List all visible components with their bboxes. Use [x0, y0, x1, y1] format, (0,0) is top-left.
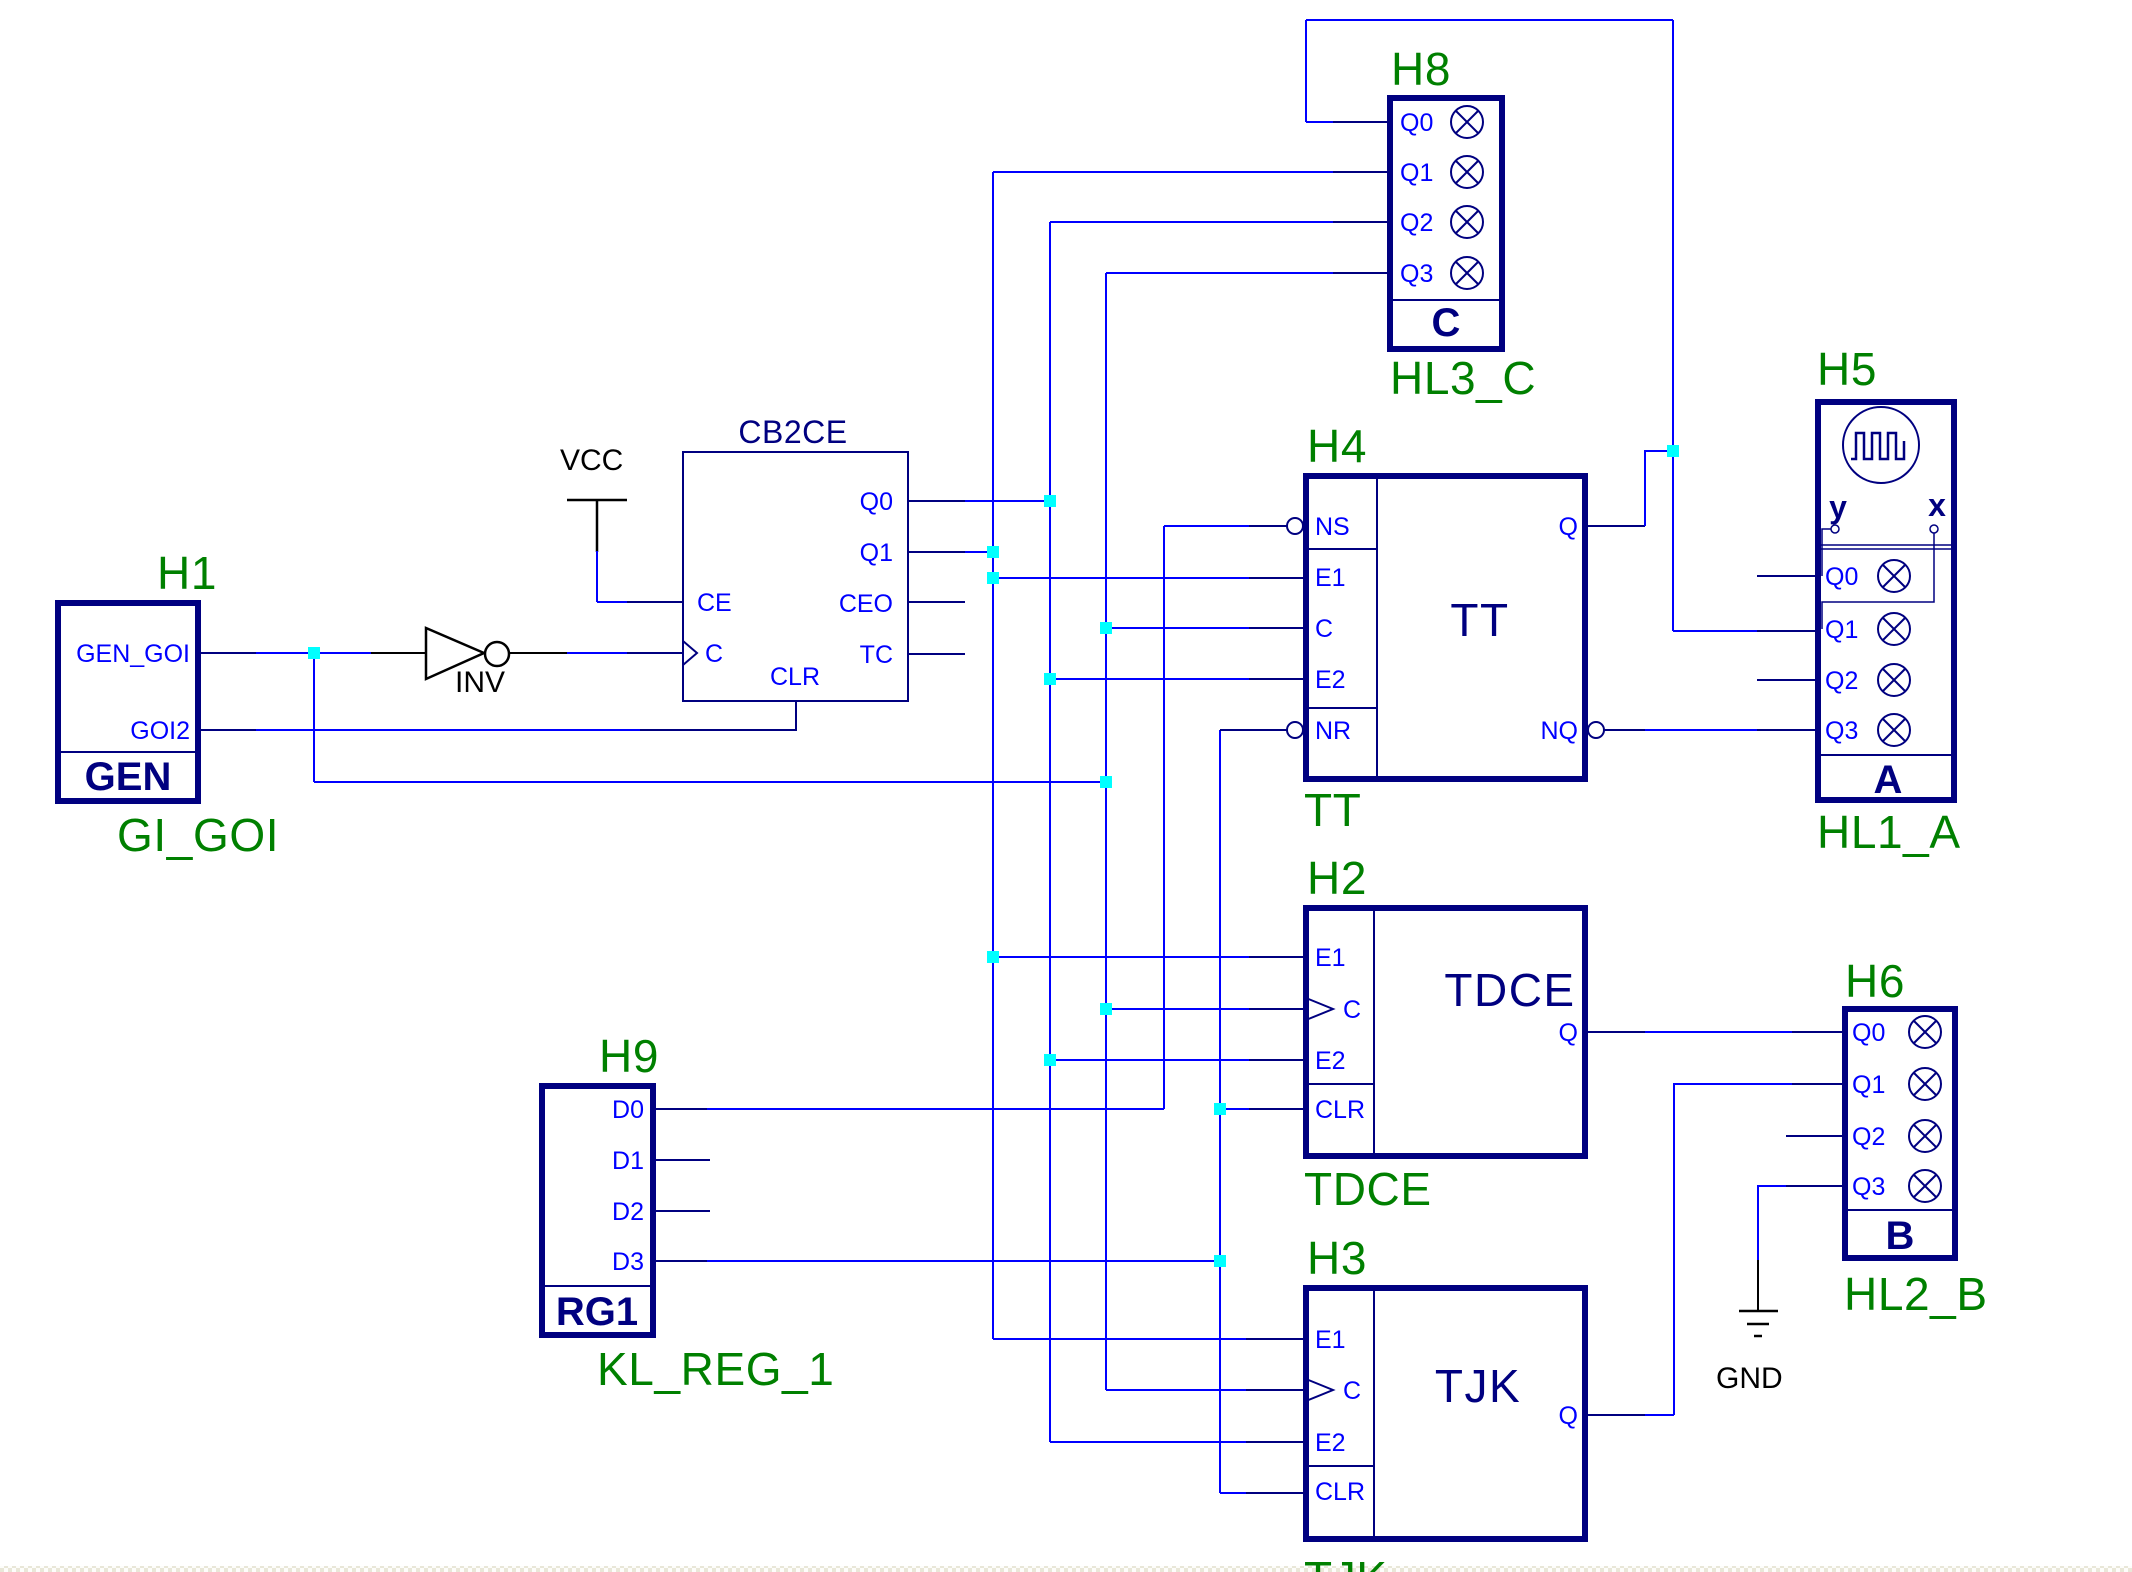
wire H4.NQ stub [1604, 729, 1645, 731]
wire to H8.Q1 [993, 171, 1333, 173]
svg-text:D2: D2 [612, 1198, 644, 1226]
indicator H5 (HL1_A) [1818, 402, 1954, 802]
svg-text:CEO: CEO [839, 590, 893, 618]
wire H4.E2 stub [1249, 678, 1306, 680]
wire H4.NS from riser [1164, 525, 1249, 527]
svg-text:GEN: GEN [85, 755, 172, 799]
svg-text:Q0: Q0 [1852, 1019, 1885, 1047]
wire H4.E1 stub [1249, 577, 1306, 579]
lamp H8.Q1 [1451, 156, 1483, 188]
svg-text:H5: H5 [1817, 343, 1877, 395]
wire TJK.CLR stub [1246, 1492, 1306, 1494]
wire to H8.Q3 [1106, 272, 1333, 274]
junction H2.C / clock-net [1100, 1003, 1112, 1015]
wire TJK.CLR from reset net [1220, 1492, 1246, 1494]
svg-text:y: y [1829, 489, 1847, 525]
wire H2.C from net [1106, 1008, 1249, 1010]
indicator H6 (HL2_B) [1845, 1009, 1955, 1258]
wire clock branch horizontal to C-net [314, 781, 1106, 783]
svg-text:KL_REG_1: KL_REG_1 [597, 1343, 835, 1395]
lamp H6.Q2 [1909, 1120, 1941, 1152]
wire top loop vertical x=1673 [1672, 20, 1674, 631]
wire CB2CE.Q1 to net [965, 551, 993, 553]
wire H2.E2 stub [1249, 1059, 1306, 1061]
wire H5.Q0 stub [1757, 575, 1818, 577]
lamp H5.Q3 [1878, 714, 1910, 746]
wire H4.C from net [1106, 627, 1249, 629]
wire H2.E2 from net [1050, 1059, 1249, 1061]
wire H6.Q1 run from TJK.Q [1674, 1084, 1792, 1415]
svg-text:A: A [1874, 758, 1903, 802]
wire clock branch down from node (314,653) [313, 653, 315, 782]
wire TJK.E1 from net [993, 1338, 1246, 1340]
svg-text:Q3: Q3 [1825, 717, 1858, 745]
svg-text:NR: NR [1315, 717, 1351, 745]
svg-text:Q1: Q1 [860, 539, 893, 567]
wire H4.NQ to H5.Q3 [1645, 729, 1757, 731]
generator H1 (GEN) [58, 603, 198, 801]
svg-text:TT: TT [1304, 784, 1361, 836]
svg-text:TJK: TJK [1435, 1360, 1521, 1412]
wire TDCE.Q stub [1588, 1031, 1645, 1033]
svg-text:TJK: TJK [1304, 1552, 1388, 1572]
svg-text:Q0: Q0 [860, 488, 893, 516]
wire TDCE.Q to H6.Q0 [1645, 1031, 1792, 1033]
junction GEN_GOI branch [308, 647, 320, 659]
wire H8.Q0 stub [1333, 121, 1390, 123]
wire H6.Q3 stub [1786, 1185, 1845, 1187]
wire H8.Q2 stub [1333, 221, 1390, 223]
ground GND [1716, 1260, 1783, 1395]
svg-text:HL3_C: HL3_C [1390, 352, 1536, 404]
flip-flop H2 (TDCE) [1306, 908, 1585, 1156]
net vertical x=993 (Q1 net) [992, 172, 994, 1339]
junction H4.E1 / Q1-net [987, 572, 999, 584]
wire INV input stub [371, 652, 426, 654]
lamp H6.Q1 [1909, 1068, 1941, 1100]
wire H5.Q3 stub [1757, 729, 1818, 731]
svg-text:NS: NS [1315, 513, 1350, 541]
svg-text:Q0: Q0 [1400, 109, 1433, 137]
svg-text:D0: D0 [612, 1096, 644, 1124]
svg-text:E1: E1 [1315, 944, 1346, 972]
junction clock branch / clock-net [1100, 776, 1112, 788]
power VCC [560, 444, 627, 552]
wire RG1.D0 stub [656, 1108, 707, 1110]
svg-text:Q3: Q3 [1852, 1173, 1885, 1201]
wire H6.Q0 stub [1792, 1031, 1845, 1033]
wire H2.CLR from reset net [1220, 1108, 1249, 1110]
svg-text:CLR: CLR [770, 663, 820, 691]
wire H5.Q2 stub [1757, 679, 1818, 681]
wire TJK.C from net [1106, 1389, 1246, 1391]
wire VCC to CB2CE.CE [597, 601, 627, 603]
lamp H8.Q3 [1451, 257, 1483, 289]
wire TJK.Q to riser [1645, 1414, 1674, 1416]
junction H2.CLR / reset-net [1214, 1103, 1226, 1115]
wire TJK.Q stub [1588, 1414, 1645, 1416]
svg-text:D1: D1 [612, 1147, 644, 1175]
junction H4.C / clock-net [1100, 622, 1112, 634]
svg-text:C: C [1432, 301, 1461, 345]
svg-text:VCC: VCC [560, 444, 623, 477]
lamp H5.Q1 [1878, 613, 1910, 645]
svg-text:E1: E1 [1315, 564, 1346, 592]
wire H2.C stub [1249, 1008, 1306, 1010]
svg-text:NQ: NQ [1541, 717, 1579, 745]
svg-text:Q1: Q1 [1400, 159, 1433, 187]
svg-text:TC: TC [860, 641, 893, 669]
svg-text:Q1: Q1 [1825, 616, 1858, 644]
svg-text:H4: H4 [1307, 420, 1367, 472]
svg-text:C: C [705, 640, 723, 668]
svg-text:GEN_GOI: GEN_GOI [76, 640, 190, 668]
wire H6.Q1 stub [1792, 1083, 1845, 1085]
wire to H5.Q1 [1673, 630, 1757, 632]
wire CB2CE.TC stub [909, 653, 965, 655]
wire to H8.Q0 [1306, 121, 1333, 123]
svg-text:E2: E2 [1315, 666, 1346, 694]
flip-flop H4 (TT) [1287, 476, 1604, 779]
svg-text:B: B [1886, 1214, 1915, 1258]
wire H8.Q1 stub [1333, 171, 1390, 173]
wire H5.Q1 stub [1757, 630, 1818, 632]
svg-text:C: C [1315, 615, 1333, 643]
inverter INV [426, 628, 509, 699]
flip-flop H3 (TJK) [1306, 1288, 1585, 1539]
wire CB2CE.CEO stub [909, 601, 965, 603]
junction CB2CE.Q1 / Q1-net [987, 546, 999, 558]
wire INV output stub [509, 652, 567, 654]
svg-text:Q: Q [1559, 513, 1578, 541]
lamp H5.Q2 [1878, 664, 1910, 696]
counter CB2CE [683, 414, 908, 701]
svg-text:H8: H8 [1391, 43, 1451, 95]
svg-text:C: C [1343, 996, 1361, 1024]
junction H4.Q / top loop [1667, 445, 1679, 457]
svg-text:CLR: CLR [1315, 1478, 1365, 1506]
wire GEN_GOI to INV input [256, 652, 371, 654]
wire H6.Q2 stub [1786, 1135, 1845, 1137]
wire H2.E1 stub [1249, 956, 1306, 958]
junction H2.E2 / Q0-net [1044, 1054, 1056, 1066]
wire H4.Q stub [1588, 525, 1645, 527]
svg-text:GOI2: GOI2 [130, 717, 190, 745]
wire H4.C stub [1249, 627, 1306, 629]
svg-text:Q0: Q0 [1825, 563, 1858, 591]
wire RG1.D3 stub [656, 1260, 707, 1262]
net vertical x=1106 (clock net) [1105, 273, 1107, 1390]
svg-text:Q: Q [1559, 1402, 1578, 1430]
wire RG1.D1 stub [656, 1159, 710, 1161]
wire H2.E1 from net [993, 956, 1249, 958]
wire TJK.E1 stub [1246, 1338, 1306, 1340]
svg-text:TDCE: TDCE [1304, 1163, 1432, 1215]
svg-text:E2: E2 [1315, 1047, 1346, 1075]
junction H4.E2 / Q0-net [1044, 673, 1056, 685]
svg-text:Q: Q [1559, 1019, 1578, 1047]
wire H4.NR from reset net [1220, 729, 1287, 731]
wire H6.Q3 to GND [1758, 1186, 1786, 1260]
svg-text:INV: INV [455, 666, 505, 699]
svg-text:CB2CE: CB2CE [738, 414, 847, 450]
wire RG1.D3 to reset net [707, 1260, 1220, 1262]
svg-text:Q2: Q2 [1825, 667, 1858, 695]
wire RG1.D2 stub [656, 1210, 710, 1212]
svg-text:Q2: Q2 [1400, 209, 1433, 237]
wire top loop vertical x=1306 [1305, 20, 1307, 122]
wire VCC drop [596, 551, 598, 602]
wire H4.Q riser [1645, 451, 1673, 526]
svg-text:HL2_B: HL2_B [1844, 1268, 1988, 1320]
svg-text:Q2: Q2 [1852, 1123, 1885, 1151]
wire H4.E2 from net [1050, 678, 1249, 680]
wire top loop horizontal y=20 [1306, 19, 1673, 21]
svg-text:H2: H2 [1307, 852, 1367, 904]
junction H2.E1 / Q1-net [987, 951, 999, 963]
wire CB2CE.CE stub [627, 601, 683, 603]
net vertical x=1220 (reset net) [1219, 730, 1221, 1493]
svg-text:H9: H9 [599, 1030, 659, 1082]
svg-text:H6: H6 [1845, 955, 1905, 1007]
wire INV output to CB2CE.C [567, 652, 627, 654]
wire CB2CE.C stub [627, 652, 683, 654]
svg-text:GND: GND [1716, 1362, 1783, 1395]
lamp H8.Q2 [1451, 206, 1483, 238]
wire CB2CE.CLR riser [795, 702, 797, 731]
wire CB2CE.Q0 stub [909, 500, 965, 502]
lamp H8.Q0 [1451, 106, 1483, 138]
wire CB2CE.Q0 to net [965, 500, 1050, 502]
wire H2.CLR stub [1249, 1108, 1306, 1110]
svg-text:TDCE: TDCE [1444, 964, 1575, 1016]
svg-text:C: C [1343, 1377, 1361, 1405]
lamp H5.Q0 [1878, 560, 1910, 592]
svg-text:H3: H3 [1307, 1232, 1367, 1284]
wire CB2CE.CLR run [640, 729, 797, 731]
wire H4.NS stub [1249, 525, 1287, 527]
wire GOI2 to CB2CE.CLR [256, 729, 640, 731]
junction CB2CE.Q0 / Q0-net [1044, 495, 1056, 507]
svg-text:E1: E1 [1315, 1326, 1346, 1354]
svg-text:CLR: CLR [1315, 1096, 1365, 1124]
svg-text:H1: H1 [157, 547, 217, 599]
svg-text:Q1: Q1 [1852, 1071, 1885, 1099]
junction RG1.D3 / reset-net [1214, 1255, 1226, 1267]
lamp H6.Q0 [1909, 1016, 1941, 1048]
svg-text:Q3: Q3 [1400, 260, 1433, 288]
wire to H8.Q2 [1050, 221, 1333, 223]
wire GEN.GOI2 stub [201, 729, 256, 731]
net vertical x=1164 (D0-NS net) [1163, 526, 1165, 1109]
svg-text:E2: E2 [1315, 1429, 1346, 1457]
lamp H6.Q3 [1909, 1170, 1941, 1202]
wire TJK.C stub [1246, 1389, 1306, 1391]
svg-text:D3: D3 [612, 1248, 644, 1276]
net vertical x=1050 (Q0 net) [1049, 222, 1051, 1442]
svg-text:TT: TT [1450, 594, 1509, 646]
wire TJK.E2 from net [1050, 1441, 1246, 1443]
wire H4.E1 from net [993, 577, 1249, 579]
wire RG1.D0 to NS riser [707, 1108, 1164, 1110]
svg-text:GI_GOI: GI_GOI [117, 809, 279, 861]
svg-text:RG1: RG1 [556, 1290, 638, 1334]
svg-text:CE: CE [697, 589, 732, 617]
wire GEN_GOI stub [201, 652, 256, 654]
wire CB2CE.Q1 stub [909, 551, 965, 553]
wire H8.Q3 stub [1333, 272, 1390, 274]
wire TJK.E2 stub [1246, 1441, 1306, 1443]
register H9 (RG1) [542, 1086, 653, 1335]
indicator H8 (HL3_C) [1390, 98, 1502, 349]
svg-text:HL1_A: HL1_A [1817, 806, 1961, 858]
svg-text:x: x [1928, 487, 1946, 523]
